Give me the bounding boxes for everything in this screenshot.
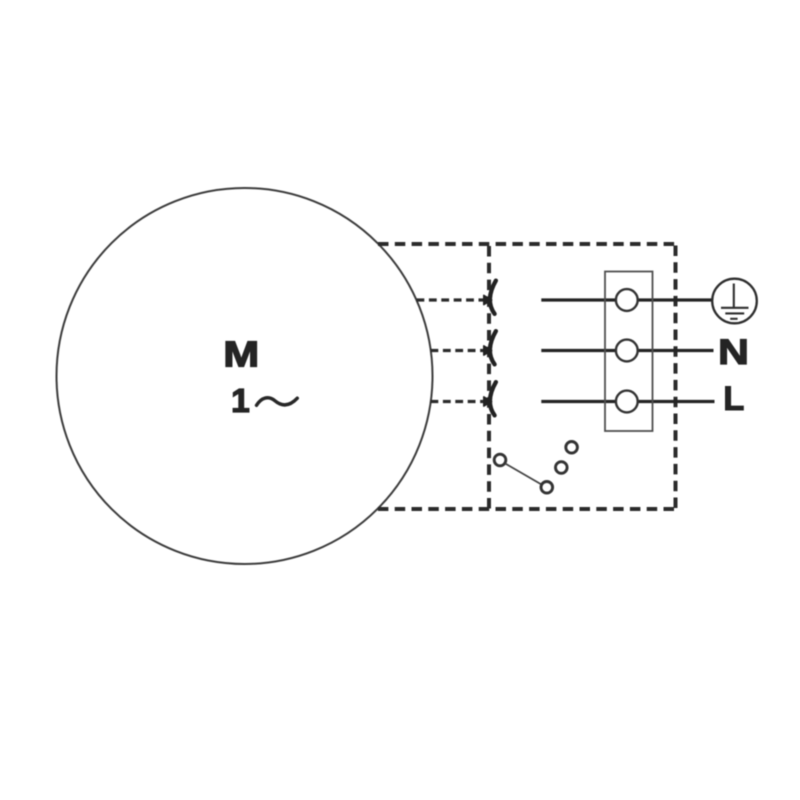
connector (plug-socket) N: [484, 331, 496, 364]
svg-text:L: L: [723, 380, 744, 418]
wire: dashed stub motor to connector (L): [431, 400, 485, 403]
switch S1 common contact: [494, 454, 506, 466]
terminal block X1: [605, 272, 653, 432]
terminal 3 (L): [616, 391, 638, 413]
switch S1 contact position 2: [556, 462, 568, 474]
label ~ (phase tilde): [257, 398, 298, 406]
connector (plug-socket) PE: [484, 281, 496, 314]
dashed divider (connector plane): [487, 246, 491, 509]
switch S1 contact position 1: [541, 482, 553, 494]
svg-text:1: 1: [231, 383, 250, 420]
wire: L to terminal and out: [541, 400, 714, 403]
dashed enclosure bottom edge: [374, 507, 674, 511]
wire: N to terminal and out: [541, 349, 713, 352]
connector (plug-socket) L: [484, 382, 496, 415]
switch S1 contact position 3: [566, 442, 578, 454]
terminal 1 (PE): [616, 289, 638, 311]
terminal 2 (N): [616, 340, 638, 362]
wire: dashed stub motor to connector (N): [431, 349, 485, 352]
wire: dashed stub motor to connector (PE): [417, 298, 485, 301]
switch S1 lever: [505, 464, 541, 485]
wire: PE to terminal and earth: [541, 298, 712, 301]
dashed enclosure right edge: [674, 246, 678, 510]
motor M1 (single-phase motor circle): [57, 188, 433, 564]
svg-text:N: N: [718, 332, 749, 372]
protective earth symbol: [712, 279, 757, 324]
svg-text:M: M: [223, 334, 259, 375]
dashed enclosure top edge: [378, 242, 676, 246]
